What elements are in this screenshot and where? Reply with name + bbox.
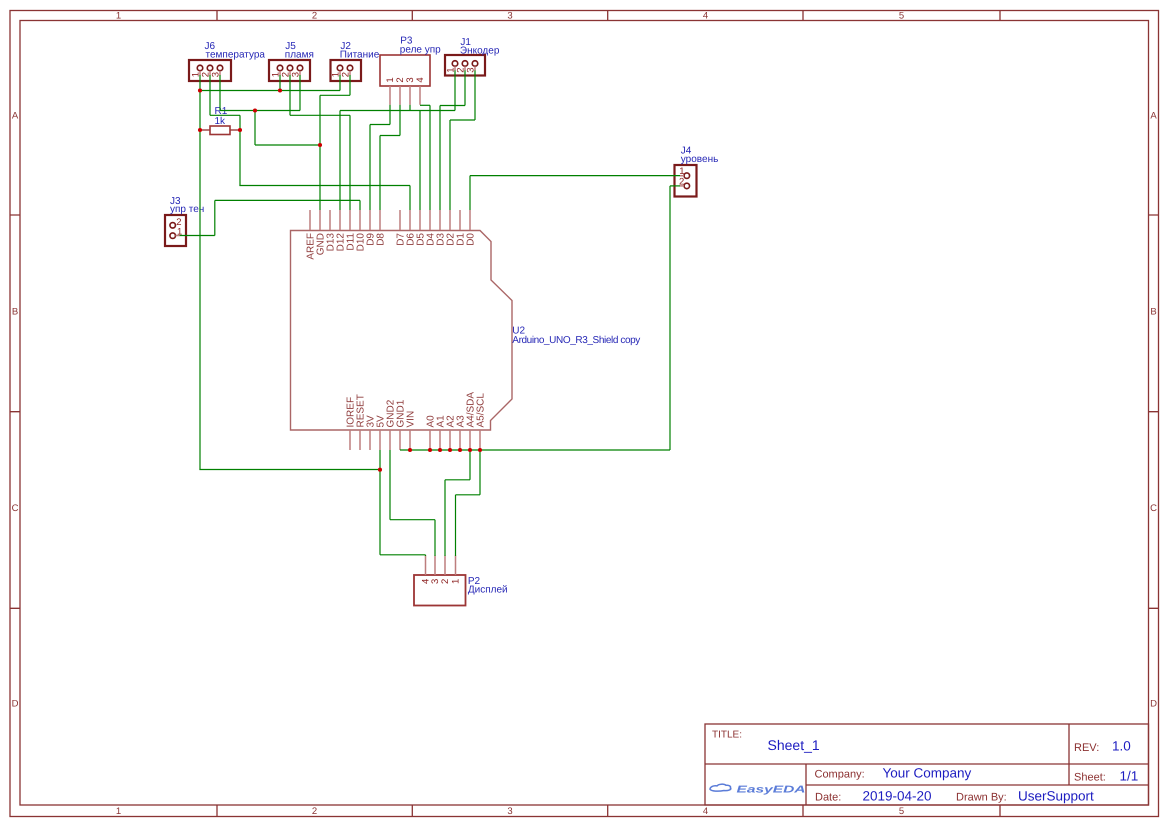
svg-text:Arduino_UNO_R3_Shield copy: Arduino_UNO_R3_Shield copy — [512, 335, 640, 346]
svg-text:5: 5 — [899, 11, 904, 22]
wire net VCC top rail — [200, 90, 340, 92]
wire net 5V horizontal to P2 — [380, 554, 426, 556]
wire J6 pin2 stub — [209, 75, 211, 115]
pin stub P3 pin4 — [419, 86, 421, 105]
wire net A5 drop to P2 pin1 — [455, 495, 457, 556]
pin stub U2 pin D0 — [469, 210, 471, 230]
frame column tick marks bottom — [217, 805, 1000, 817]
wire net D4 drop to U2 — [429, 105, 431, 210]
svg-text:UserSupport: UserSupport — [1018, 789, 1094, 804]
junction R1 right on D6 vertical — [238, 128, 242, 132]
svg-text:D8: D8 — [376, 233, 387, 246]
pin stub U2 pin AREF — [309, 210, 311, 230]
wire net VCC bottom horizontal — [199, 469, 380, 471]
pin stub J2 pin piece x340 — [339, 71, 341, 75]
svg-text:уровень: уровень — [681, 154, 719, 165]
wire net A5 vertical — [479, 450, 481, 495]
pin stub J4 pin1 piece — [680, 175, 684, 177]
resistor R1 — [200, 126, 240, 135]
frame row letters left — [12, 111, 19, 710]
svg-text:C: C — [12, 503, 19, 514]
pin stub U2 pin GND — [319, 210, 321, 230]
wire P2 pin4 riser — [425, 555, 427, 556]
junction analog rail x450 — [448, 448, 452, 452]
junction analog rail x470 — [468, 448, 472, 452]
pin stub J2 pin piece x350 — [349, 71, 351, 75]
wire net D9 drop to U2 — [369, 125, 371, 211]
pin stub U2 pin GND1 — [399, 430, 401, 450]
wire net A5 horizontal — [456, 494, 481, 496]
pin stub U2 pin D6 — [409, 210, 411, 230]
svg-text:1: 1 — [116, 11, 121, 22]
pin stub U2 pin D7 — [399, 210, 401, 230]
svg-text:Date:: Date: — [815, 792, 841, 804]
wire net D3 horizontal — [440, 105, 465, 107]
wire P3 pin1 wire down — [389, 105, 391, 125]
frame row letters right — [1150, 111, 1157, 710]
pin stub U2 pin RESET — [359, 430, 361, 450]
svg-text:1.0: 1.0 — [1112, 739, 1131, 754]
svg-text:REV:: REV: — [1074, 742, 1099, 754]
svg-text:1k: 1k — [215, 116, 227, 127]
wire P3 pin2 wire down — [399, 105, 401, 136]
svg-text:1: 1 — [679, 166, 684, 177]
pin stub U2 pin GND2 — [389, 430, 391, 450]
connector J6 — [189, 60, 231, 81]
svg-text:B: B — [12, 307, 18, 318]
pin stub U2 pin D10 — [359, 210, 361, 230]
svg-text:5: 5 — [899, 806, 904, 817]
wire net D2 drop to U2 — [449, 120, 451, 210]
svg-text:D: D — [12, 699, 19, 710]
wire net GND2 horizontal — [390, 519, 435, 521]
wire J1 pin1 stub — [454, 70, 456, 110]
pin stub U2 pin IOREF — [349, 430, 351, 450]
wire net A4 vertical — [469, 450, 471, 480]
wire J2 pin2 stub — [349, 75, 351, 95]
pin stub J5 pin piece x290 — [289, 71, 291, 75]
frame row tick marks left — [10, 215, 20, 608]
frame row tick marks right — [1149, 215, 1159, 608]
svg-text:Your Company: Your Company — [883, 766, 972, 781]
svg-text:1/1: 1/1 — [1120, 769, 1139, 784]
wire J3 pin1 wire — [180, 235, 215, 237]
junction analog rail x430 — [428, 448, 432, 452]
svg-text:VIN: VIN — [406, 411, 417, 428]
wire net A4 drop to P2 pin2 — [444, 480, 446, 556]
U2 top pin labels — [306, 233, 477, 260]
connector J4 — [675, 165, 697, 197]
wire net D10 riser — [214, 200, 216, 235]
pin stub U2 pin D13 — [329, 210, 331, 230]
pin stub U2 pin D2 — [449, 210, 451, 230]
wire J5 pin2 stub — [289, 75, 291, 115]
wire net D10 drop to U2 — [359, 200, 361, 210]
connector J5 — [269, 60, 310, 81]
wire net GND2 vertical — [389, 450, 391, 520]
wire J1 pin2 stub — [464, 70, 466, 105]
svg-text:1: 1 — [116, 806, 121, 817]
connector J1 — [445, 55, 485, 76]
svg-text:D: D — [1150, 699, 1157, 710]
pin stub U2 pin D11 — [349, 210, 351, 230]
wire J6 pin2 to R1 right horizontal — [210, 114, 240, 116]
wire J6 pin3 stub — [219, 75, 221, 111]
svg-text:2: 2 — [312, 806, 317, 817]
svg-text:2019-04-20: 2019-04-20 — [863, 789, 932, 804]
pin stub J5 pin piece x300 — [299, 71, 301, 75]
wire net D8 horizontal — [380, 135, 400, 137]
wire J2 pin2 horizontal — [320, 94, 350, 96]
svg-text:Дисплей: Дисплей — [468, 584, 508, 595]
svg-text:4: 4 — [703, 11, 708, 22]
junction J5.1 on top rail — [278, 88, 282, 92]
svg-text:Drawn By:: Drawn By: — [956, 792, 1007, 804]
junction J6.1 on top rail — [198, 88, 202, 92]
wire J6 pin1 stub — [199, 75, 201, 91]
title block border and dividers — [705, 724, 1149, 805]
wire net GND vertical J2 — [319, 95, 321, 145]
frame column numbers bottom — [116, 806, 904, 817]
pin stub J4 pin2 piece — [680, 185, 684, 187]
pin stub U2 pin D9 — [369, 210, 371, 230]
pin stub J1 pin piece x475 — [474, 66, 476, 70]
wire net VCC J6.1 vertical — [199, 91, 201, 470]
wire P3 pin3 wire — [409, 105, 411, 111]
pin stub P2 pin1 — [455, 556, 457, 576]
connector P3 — [380, 55, 430, 86]
wire J1 pin3 stub — [474, 70, 476, 120]
svg-text:упр тен: упр тен — [170, 204, 204, 215]
wire net D8 drop to U2 — [379, 136, 381, 211]
wire J4 pin2 stub — [670, 185, 680, 187]
svg-text:реле упр: реле упр — [400, 44, 441, 55]
pin stub P3 pin3 — [409, 86, 411, 105]
frame column tick marks top — [217, 11, 1000, 21]
connector J2 — [331, 60, 362, 81]
svg-text:2: 2 — [440, 579, 451, 584]
wire net analog bottom rail — [400, 449, 670, 451]
pin stub U2 pin D1 — [459, 210, 461, 230]
wire J5 pin1 stub — [279, 75, 281, 91]
pin stub J1 pin piece x465 — [464, 66, 466, 70]
junction analog rail x480 — [478, 448, 482, 452]
pin stub J3 pin1 piece — [176, 235, 180, 237]
svg-text:TITLE:: TITLE: — [712, 730, 742, 741]
svg-text:Company:: Company: — [815, 769, 865, 781]
EasyEDA logo — [710, 784, 806, 795]
pin stub U2 pin A3 — [459, 430, 461, 450]
svg-text:D0: D0 — [466, 233, 477, 246]
junction R1 left on J6.1 vertical — [198, 128, 202, 132]
svg-text:B: B — [1150, 307, 1156, 318]
wire J2 pin1 stub — [339, 75, 341, 91]
wire P3 pin4 horizontal — [420, 104, 430, 106]
wire R1 right vertical — [239, 115, 241, 185]
pin stub U2 pin D12 — [339, 210, 341, 230]
connector P2 — [414, 575, 466, 606]
wire net analog right vertical — [669, 186, 671, 450]
svg-text:Sheet:: Sheet: — [1074, 772, 1106, 784]
junction analog rail x460 — [458, 448, 462, 452]
frame column numbers top — [116, 11, 904, 22]
pin stub U2 pin D4 — [429, 210, 431, 230]
wire net D6 horizontal — [239, 185, 410, 187]
svg-text:2: 2 — [312, 11, 317, 22]
wire net GND vertical from junction — [254, 111, 256, 146]
pin stub J6 pin piece x220 — [219, 71, 221, 75]
pin stub P3 pin2 — [399, 86, 401, 105]
wire net D11 horizontal — [290, 114, 350, 116]
pin stub P2 pin4 — [425, 556, 427, 576]
pin stub U2 pin A2 — [449, 430, 451, 450]
pin stub J5 pin piece x280 — [279, 71, 281, 75]
U2 bottom pin labels — [346, 392, 487, 428]
svg-text:EasyEDA: EasyEDA — [737, 785, 806, 796]
pin stub U2 pin A4/SDA — [469, 430, 471, 450]
wire net A4 horizontal — [445, 479, 470, 481]
pin stub J1 pin piece x455 — [454, 66, 456, 70]
svg-text:Питание: Питание — [340, 50, 380, 61]
wire net GND lower horizontal — [255, 144, 320, 146]
pin stub U2 pin D3 — [439, 210, 441, 230]
wire net D12 drop to U2 — [339, 111, 341, 211]
wire net D10 horizontal — [215, 199, 360, 201]
pin stub U2 pin 3V — [369, 430, 371, 450]
pin stub P2 pin3 — [434, 556, 436, 576]
wire net GND drop to U2 GND pin — [319, 145, 321, 210]
connector J3 — [165, 215, 186, 246]
wire J4 pin1 wire (net D0) — [470, 175, 680, 177]
svg-text:Sheet_1: Sheet_1 — [768, 737, 820, 753]
junction GND net tee 2 — [318, 143, 322, 147]
wire J5 pin3 stub — [299, 75, 301, 111]
wire net D6 drop to U2 — [409, 186, 411, 211]
junction analog rail x440 — [438, 448, 442, 452]
svg-text:температура: температура — [206, 50, 266, 61]
junction 5V tee — [378, 468, 382, 472]
svg-text:C: C — [1150, 503, 1157, 514]
svg-text:3: 3 — [507, 11, 512, 22]
wire net D3 drop to U2 — [439, 106, 441, 211]
svg-text:3: 3 — [507, 806, 512, 817]
pin stub U2 pin 5V — [379, 430, 381, 450]
wire net 5V vertical — [379, 450, 381, 555]
pin stub P3 pin1 — [389, 86, 391, 105]
svg-text:1: 1 — [450, 579, 461, 584]
wire net D12 horizontal — [340, 110, 455, 112]
svg-text:A: A — [12, 111, 19, 122]
wire net D0 drop to U2 — [469, 176, 471, 210]
svg-text:4: 4 — [703, 806, 708, 817]
pin stub U2 pin A1 — [439, 430, 441, 450]
pin stub U2 pin A0 — [429, 430, 431, 450]
wire net D9 horizontal — [370, 124, 390, 126]
junction GND net tee — [253, 108, 257, 112]
wire net D11 vertical to U2 — [349, 115, 351, 210]
pin stub U2 pin VIN — [409, 430, 411, 450]
svg-text:пламя: пламя — [285, 50, 314, 61]
wire net GND horizontal — [220, 110, 300, 112]
pin stub P2 pin2 — [444, 556, 446, 576]
svg-text:A: A — [1150, 111, 1157, 122]
svg-text:Энкодер: Энкодер — [460, 46, 500, 57]
svg-text:4: 4 — [415, 77, 426, 82]
junction analog rail x410 — [408, 448, 412, 452]
pin stub J6 pin piece x200 — [199, 71, 201, 75]
op-amp U2 body (Arduino_UNO_R3_Shield copy) — [291, 231, 513, 431]
pin stub U2 pin D8 — [379, 210, 381, 230]
pin stub U2 pin D5 — [419, 210, 421, 230]
wire net D2 horizontal — [450, 119, 475, 121]
wire net GND2 drop to P2 pin3 — [434, 520, 436, 556]
wire net D5 drop to U2 — [419, 111, 421, 211]
svg-text:A5/SCL: A5/SCL — [476, 393, 487, 428]
pin stub J6 pin piece x210 — [209, 71, 211, 75]
pin stub U2 pin A5/SCL — [479, 430, 481, 450]
